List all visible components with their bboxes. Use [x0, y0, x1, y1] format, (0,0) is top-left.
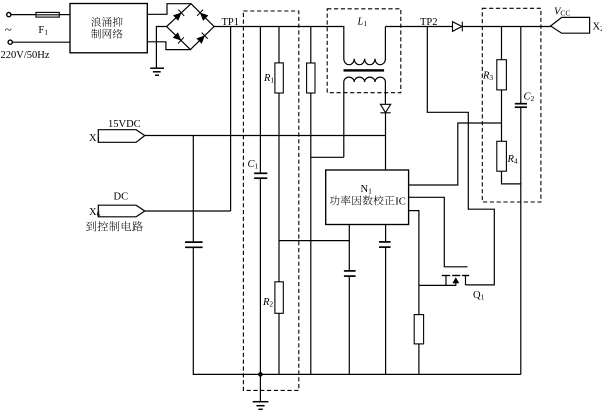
dashed box input filter	[243, 11, 298, 390]
mosfet Q1 channel	[442, 275, 469, 277]
surge box text line1	[91, 17, 122, 27]
node TP1 main rail	[214, 26, 343, 28]
rail TP2 to diode	[386, 26, 453, 28]
wire C2 down	[520, 107, 522, 374]
wire R4 bottom	[502, 171, 521, 184]
wire D3 to N1	[385, 113, 387, 170]
svg-text:N1: N1	[361, 184, 373, 196]
capacitor C2	[515, 104, 527, 108]
wire N1 bottom pin cap2	[385, 225, 387, 242]
diode D2 output	[453, 22, 463, 32]
wire N1 bottom pin cap1	[348, 225, 350, 271]
wire cap to rail corner	[193, 247, 521, 374]
wire box to bridge top	[147, 4, 191, 15]
wire cap1 to rail	[348, 276, 350, 374]
svg-text:R3: R3	[482, 71, 493, 83]
svg-text:Q1: Q1	[473, 290, 485, 302]
svg-text:R1: R1	[263, 73, 274, 85]
svg-text:R4: R4	[507, 154, 518, 166]
wire ground stem	[259, 374, 261, 400]
dashed box output	[482, 8, 541, 202]
svg-text:220V/50Hz: 220V/50Hz	[1, 50, 50, 61]
resistor R3 line	[501, 27, 503, 60]
dashed box L1	[327, 9, 401, 93]
wire R3 to R4	[501, 90, 503, 141]
resistor R3	[497, 60, 507, 90]
wire feedback horizontal	[279, 240, 349, 242]
rail diode to X2	[462, 26, 550, 28]
bridge diode bottom-left	[173, 32, 184, 43]
capacitor C1	[254, 173, 267, 178]
wire sense resistor leads	[418, 285, 420, 374]
capacitor N1 b	[379, 242, 391, 247]
connector X2	[551, 17, 590, 33]
terminal input L	[7, 13, 11, 17]
bridge diode top-right	[197, 10, 208, 21]
wire TP1 vertical	[230, 27, 232, 212]
resistor R1	[275, 63, 283, 93]
wire X1 branch down	[192, 136, 194, 242]
svg-text:X6: X6	[89, 207, 101, 219]
terminal input N	[8, 40, 12, 44]
svg-text:F1: F1	[38, 25, 48, 37]
ground	[150, 68, 164, 75]
surge box text line2	[91, 29, 122, 39]
connector X6	[98, 205, 145, 217]
capacitor C1 line lower	[259, 178, 261, 374]
capacitor input bypass	[185, 242, 203, 247]
wire bridge left to ground	[156, 27, 166, 68]
svg-text:TP2: TP2	[420, 17, 438, 28]
IC N1 box	[326, 170, 409, 225]
resistor R1 line	[278, 27, 280, 63]
wire drain up	[427, 27, 494, 285]
wire	[11, 14, 36, 16]
bridge diode bottom-right	[196, 33, 207, 44]
svg-text:DC: DC	[114, 192, 129, 203]
inductor L1 core	[344, 69, 385, 71]
resistor sense	[414, 315, 423, 344]
wire	[12, 41, 70, 43]
wire R2 to rail	[278, 313, 280, 374]
wire X6 horizontal	[145, 210, 231, 212]
wire N1 pinB gate	[409, 197, 468, 266]
svg-text:15VDC: 15VDC	[108, 119, 141, 130]
svg-text:IC: IC	[395, 197, 406, 208]
fuse F1	[36, 12, 59, 17]
wire X1 horizontal	[145, 135, 386, 137]
resistor startup	[307, 63, 315, 93]
wire box to bridge bottom	[147, 42, 190, 50]
X6 caption text	[86, 221, 143, 231]
mosfet Q1 body arrow	[452, 277, 459, 285]
svg-text:R2: R2	[262, 297, 273, 309]
svg-text:VCC: VCC	[554, 7, 570, 18]
connector X1	[98, 130, 145, 143]
inductor L1 secondary	[344, 77, 386, 157]
resistor R4	[497, 141, 507, 171]
svg-text:X1: X1	[89, 133, 101, 145]
resistor R2	[275, 282, 283, 314]
text labels latin	[1, 7, 602, 309]
CJK vector glyphs placeholder	[86, 17, 394, 231]
N1 PFC IC text	[330, 195, 395, 205]
wire source leg	[419, 284, 456, 286]
diode bridge diamond	[167, 4, 215, 50]
bridge diode top-left	[173, 10, 184, 21]
wire	[59, 14, 70, 16]
capacitor N1 a	[344, 271, 356, 276]
svg-text:~: ~	[5, 21, 12, 36]
wire N1 pinC	[409, 211, 419, 286]
mosfet Q1 stems	[446, 276, 466, 286]
capacitor C1 line upper	[259, 27, 261, 173]
svg-text:C2: C2	[524, 92, 535, 104]
ground main	[253, 402, 269, 410]
junction dot ground node	[258, 372, 263, 377]
inductor L1 primary	[343, 27, 385, 65]
resistor startup line	[310, 27, 312, 64]
svg-text:C1: C1	[248, 159, 259, 171]
svg-text:X2: X2	[593, 22, 602, 34]
wire N1 pinA to divider	[409, 123, 502, 185]
svg-text:TP1: TP1	[222, 17, 240, 28]
diode D3 aux	[380, 104, 390, 113]
wire startup resistor down	[310, 93, 312, 374]
wire aux stair horizontal	[311, 156, 344, 158]
svg-text:L1: L1	[357, 17, 368, 29]
wire cap2 to rail	[385, 247, 387, 374]
capacitor C2 line	[520, 27, 522, 104]
surge suppression box	[70, 4, 147, 53]
wire R1 to R2	[278, 93, 280, 282]
